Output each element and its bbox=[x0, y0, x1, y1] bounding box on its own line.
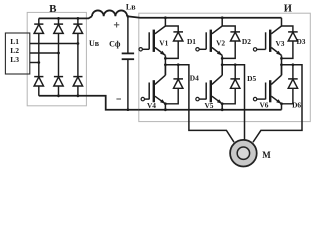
diode D5 bbox=[222, 65, 240, 104]
minus sign bbox=[116, 98, 121, 100]
junction dots leg 2 bbox=[221, 16, 224, 19]
svg-text:Lв: Lв bbox=[126, 3, 136, 12]
inverter block box bbox=[139, 13, 310, 121]
bridge bottom bus with step to negative rail bbox=[39, 96, 139, 110]
junction dots leg 3 bbox=[280, 57, 283, 60]
svg-text:D4: D4 bbox=[190, 74, 199, 83]
igbt V3 bbox=[253, 18, 281, 75]
wire phase L1 to bridge column 3 bbox=[30, 43, 78, 45]
bridge diode VD2 (col2 upper) bbox=[54, 24, 63, 33]
wire phase L2 to bridge column 2 bbox=[30, 52, 59, 54]
bridge diode VD4 (col1 lower) bbox=[34, 77, 43, 86]
junction dot phase L2 / col2 bbox=[57, 52, 60, 55]
svg-text:Сф: Сф bbox=[109, 39, 121, 48]
igbt V6 bbox=[253, 65, 281, 110]
junction dots bridge top bus bbox=[57, 17, 60, 20]
diode D6 bbox=[282, 65, 298, 104]
svg-text:D1: D1 bbox=[187, 37, 196, 46]
junction dot phase L1 / col3 bbox=[77, 42, 80, 45]
svg-text:Uв: Uв bbox=[89, 39, 100, 48]
svg-text:V4: V4 bbox=[147, 101, 156, 110]
rectifier block box bbox=[27, 12, 86, 105]
igbt V1 bbox=[139, 18, 165, 75]
igbt V5 bbox=[196, 65, 222, 110]
svg-text:V5: V5 bbox=[204, 101, 213, 110]
bridge diode VD5 (col2 lower) bbox=[54, 77, 63, 86]
svg-text:M: M bbox=[262, 150, 271, 160]
bridge column 1 wire bbox=[38, 18, 40, 95]
svg-text:В: В bbox=[49, 3, 57, 15]
svg-text:V3: V3 bbox=[275, 39, 284, 48]
junction dot phase L3 / col1 bbox=[37, 61, 40, 64]
bridge diode VD3 (col3 upper) bbox=[73, 24, 82, 33]
phase 3 output wire to motor bbox=[253, 65, 302, 142]
source box L1 L2 L3 bbox=[5, 33, 29, 74]
bridge column 3 wire bbox=[77, 18, 79, 95]
diode D2 bbox=[222, 26, 240, 58]
svg-text:L3: L3 bbox=[10, 55, 19, 64]
inductor Lв bbox=[92, 3, 136, 17]
phase 2 output wire to motor bbox=[222, 65, 244, 140]
junction dots leg 1 bbox=[164, 16, 167, 19]
wire phase L3 to bridge column 1 bbox=[30, 62, 39, 64]
svg-text:D5: D5 bbox=[247, 74, 256, 83]
svg-text:D2: D2 bbox=[242, 37, 251, 46]
capacitor Сф bbox=[122, 16, 134, 109]
plus sign bbox=[114, 22, 119, 27]
motor M bbox=[230, 140, 257, 167]
igbt V4 bbox=[141, 65, 165, 110]
diode D3 bbox=[282, 26, 298, 58]
junction dot capacitor top bbox=[127, 15, 130, 18]
svg-text:L2: L2 bbox=[10, 46, 19, 55]
bridge diode VD1 (col1 upper) bbox=[34, 24, 43, 33]
bridge column 2 wire bbox=[58, 18, 60, 95]
svg-text:V2: V2 bbox=[216, 38, 225, 47]
wire inductor to inverter top bus bbox=[127, 16, 281, 18]
svg-text:V6: V6 bbox=[259, 101, 268, 110]
junction dots bridge bottom bus bbox=[57, 94, 60, 97]
negative rail inside inverter bbox=[139, 109, 282, 111]
diode D4 bbox=[165, 65, 183, 104]
svg-text:D3: D3 bbox=[296, 37, 305, 46]
svg-text:V1: V1 bbox=[159, 38, 168, 47]
svg-text:И: И bbox=[284, 3, 292, 14]
phase 1 output wire to motor bbox=[165, 65, 234, 142]
svg-text:L1: L1 bbox=[10, 37, 19, 46]
igbt V2 bbox=[196, 18, 222, 75]
bridge top bus bbox=[39, 16, 92, 18]
junction dot capacitor bottom bbox=[127, 108, 130, 111]
diode D1 bbox=[165, 26, 183, 58]
svg-text:D6: D6 bbox=[292, 101, 301, 110]
bridge diode VD6 (col3 lower) bbox=[73, 77, 82, 86]
